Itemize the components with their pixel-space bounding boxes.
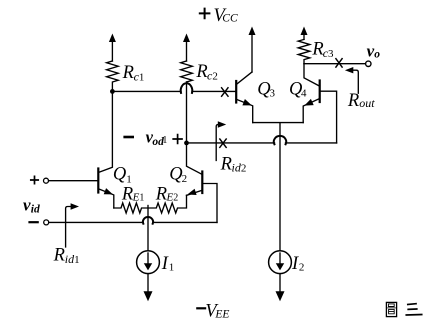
svg-text:Q: Q	[113, 165, 127, 185]
svg-text:R: R	[122, 63, 134, 83]
svg-text:R: R	[121, 185, 133, 205]
breakpoint X on vo wire	[336, 59, 342, 67]
svg-text:v: v	[23, 195, 31, 214]
svg-text:id1: id1	[65, 252, 80, 266]
svg-text:c3: c3	[323, 46, 334, 60]
svg-text:I: I	[161, 254, 169, 274]
svg-text:c2: c2	[207, 69, 218, 83]
label Rc3	[311, 40, 334, 61]
svg-text:3: 3	[270, 87, 276, 99]
svg-text:o: o	[374, 49, 380, 61]
resistor RE2	[148, 195, 187, 213]
label - at input	[30, 221, 38, 223]
current source I2	[269, 251, 292, 274]
svg-text:2: 2	[299, 262, 305, 274]
svg-text:CC: CC	[222, 13, 238, 25]
resistor Rc2	[181, 61, 193, 82]
label Q4	[289, 79, 307, 99]
svg-text:id2: id2	[232, 160, 247, 174]
transistor Q4	[303, 64, 336, 143]
label Rid1	[53, 246, 80, 266]
power arrow to -VEE below I2	[276, 274, 285, 302]
svg-text:E2: E2	[166, 191, 179, 203]
svg-text:E1: E1	[132, 192, 145, 204]
svg-text:I: I	[291, 254, 299, 274]
svg-text:1: 1	[169, 262, 175, 274]
transistor Q2	[187, 143, 218, 223]
terminal + input (open circle)	[44, 178, 49, 183]
power arrow to +VCC above Rc3	[301, 27, 308, 40]
junction dot at Q2 collector / vod1+	[184, 141, 189, 146]
resistor Rc3	[298, 39, 310, 63]
annotation arrow Rid2	[216, 121, 226, 160]
terminal vo (open circle)	[366, 61, 371, 66]
resistor RE1	[114, 203, 148, 213]
label vod1 with polarity	[125, 127, 182, 148]
junction dot at Rc1/Q1 collector	[110, 89, 115, 94]
label vo	[367, 41, 381, 60]
power arrow to -VEE below I1	[144, 274, 153, 302]
wire: Q3/Q4 common emitter to I2	[253, 123, 304, 251]
wire: output of Rc3/Q4 collector to vo	[304, 63, 365, 65]
label Q2	[169, 165, 187, 186]
svg-text:EE: EE	[214, 308, 229, 320]
label I2	[291, 254, 304, 274]
label I1	[161, 254, 174, 274]
svg-text:R: R	[53, 246, 65, 266]
power rail label -VEE	[197, 301, 229, 321]
breakpoint X on Q4 base wire	[220, 139, 226, 147]
annotation arrow Rout	[345, 67, 358, 93]
power rail label +VCC	[200, 6, 238, 26]
wire: Q1 collector node to Q3 base (net vod1-) with hop over Rc2 line	[112, 83, 236, 93]
svg-text:4: 4	[301, 87, 307, 99]
label Rout	[347, 91, 375, 111]
label Q3	[257, 79, 275, 99]
svg-text:id: id	[31, 204, 40, 216]
wire: Q2 collector node to Q4 base (net vod1+) with hop over I2 line	[187, 136, 337, 144]
power arrow to +VCC above Rc1	[109, 34, 116, 62]
svg-text:R: R	[155, 184, 167, 204]
label Rid2	[220, 155, 247, 175]
transistor Q3	[236, 72, 253, 123]
figure caption 圖三	[386, 302, 421, 316]
resistor Rc1	[107, 61, 119, 91]
terminal - input (open circle)	[44, 220, 49, 225]
arrow to VCC from Q3 collector	[249, 27, 256, 73]
svg-text:c1: c1	[134, 70, 145, 84]
annotation arrow Rid1	[66, 203, 79, 247]
label + at input	[31, 176, 38, 183]
wire: + input to Q1 base	[49, 180, 99, 182]
svg-text:out: out	[359, 96, 375, 110]
power arrow to +VCC above Rc2	[183, 34, 190, 62]
svg-text:R: R	[220, 155, 232, 175]
svg-text:R: R	[347, 91, 359, 111]
svg-text:2: 2	[182, 173, 188, 185]
svg-text:R: R	[195, 62, 207, 82]
current source I1	[137, 251, 160, 274]
label RE2	[155, 184, 178, 204]
label vid	[23, 195, 40, 215]
transistor Q1	[98, 91, 114, 208]
label Q1	[113, 165, 132, 186]
wire: RE junction down to I1	[147, 206, 149, 251]
svg-text:1: 1	[162, 135, 167, 146]
wire: - input to Q2 base with hop over I1 line	[49, 217, 217, 224]
label Rc2	[195, 62, 217, 83]
label Rc1	[122, 63, 145, 84]
label RE1	[121, 185, 144, 205]
breakpoint X on Q3 base wire	[222, 88, 228, 96]
wire: Rc2 bottom to Q2 collector node	[186, 82, 188, 143]
